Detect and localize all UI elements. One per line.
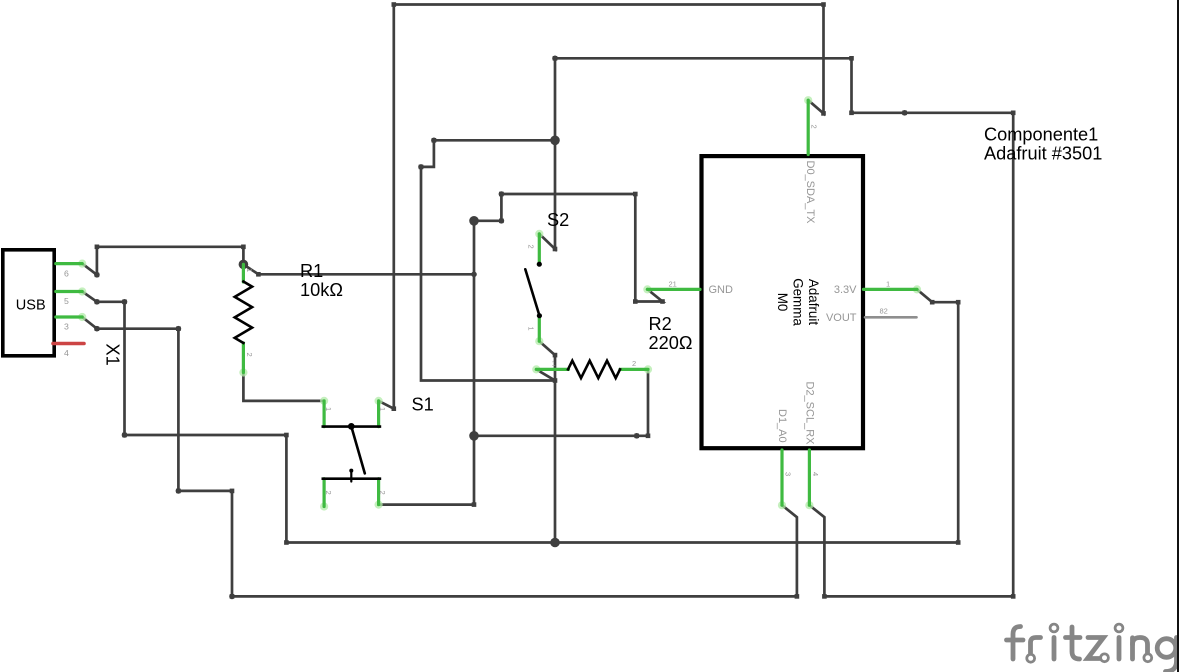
wire S2 pin1 down to bottom bus [539, 341, 555, 542]
svg-text:USB: USB [16, 298, 46, 314]
svg-text:2: 2 [632, 359, 636, 368]
svg-text:10kΩ: 10kΩ [300, 280, 343, 300]
svg-text:R2: R2 [649, 314, 672, 334]
wire GND vertical to Gemma GND pin [474, 194, 663, 302]
USB connector X1 body [3, 250, 54, 356]
svg-text:1: 1 [378, 407, 387, 411]
svg-text:1: 1 [245, 268, 254, 272]
wire USB pin3 to Gemma D1_A0 (lowest bus) [82, 317, 797, 596]
svg-text:4: 4 [811, 472, 820, 476]
screen right edge line [1177, 0, 1179, 672]
USB pin 3 [78, 313, 86, 321]
svg-text:Gemma: Gemma [791, 278, 806, 326]
Gemma pin 3.3V [913, 285, 921, 293]
wire S2 pin2 to Gemma D2_SCL_RX (right route) [539, 58, 1013, 596]
svg-text:Adafruit: Adafruit [806, 279, 821, 325]
switch S2 [535, 230, 543, 238]
fritzing watermark logo [1007, 627, 1177, 672]
svg-text:D1_A0: D1_A0 [776, 409, 788, 443]
wire R2 pin2 to GND vertical [474, 434, 648, 437]
svg-text:D0_SDA_TX: D0_SDA_TX [804, 161, 816, 225]
wire R2 pin1 stub [536, 369, 555, 380]
Gemma pin GND [643, 285, 651, 293]
wire bendpoint markers [95, 273, 100, 278]
Gemma pin D1_A0 [778, 501, 786, 509]
wire R1 pin1 node to GND vertical [243, 264, 474, 274]
svg-text:4: 4 [64, 348, 69, 358]
wire R2 pin2 drop [647, 369, 650, 435]
wire S1 pin1b to Gemma D0_SDA_TX (top route) [379, 5, 824, 409]
switch S1 [320, 397, 328, 405]
svg-text:VOUT: VOUT [826, 312, 857, 324]
svg-text:3.3V: 3.3V [834, 284, 857, 296]
USB pin 4 (red, unconnected) [53, 342, 84, 346]
svg-text:1: 1 [552, 359, 556, 368]
svg-text:2: 2 [324, 491, 333, 495]
svg-text:M0: M0 [775, 293, 790, 312]
svg-text:21: 21 [669, 280, 677, 289]
svg-text:3: 3 [64, 322, 69, 332]
svg-text:2: 2 [810, 125, 819, 129]
svg-text:Componente1: Componente1 [984, 124, 1098, 144]
Gemma pin D0_SDA_TX [804, 96, 812, 104]
junction dots [239, 260, 249, 270]
svg-text:2: 2 [245, 353, 254, 357]
svg-text:220Ω: 220Ω [649, 333, 693, 353]
svg-text:2: 2 [527, 245, 536, 249]
USB pin 6 [78, 260, 86, 268]
wire USB pin6 to R1 pin1 [82, 247, 243, 275]
svg-text:D2_SCL_RX: D2_SCL_RX [803, 382, 815, 446]
svg-text:1: 1 [324, 407, 333, 411]
wire S1 pin2b to GND vertical [379, 503, 474, 506]
svg-text:S1: S1 [412, 395, 434, 415]
USB pin 5 [78, 287, 86, 295]
wire branch from node J2 down left side to R2 pin1 node [421, 140, 555, 380]
svg-text:3: 3 [784, 472, 793, 476]
resistor R1 10k [239, 368, 247, 376]
svg-text:GND: GND [709, 284, 734, 296]
resistor R2 220 [532, 365, 540, 373]
svg-text:S2: S2 [547, 210, 569, 230]
Adafruit Gemma M0 body [702, 156, 864, 448]
wire R1 pin2 to S1 pin1a [243, 373, 324, 401]
wire USB pin5 to Gemma 3.3V (bottom bus) [82, 289, 958, 542]
svg-text:1: 1 [527, 327, 536, 331]
svg-text:6: 6 [64, 269, 69, 279]
svg-text:5: 5 [64, 296, 69, 306]
svg-text:1: 1 [886, 280, 890, 289]
svg-text:R1: R1 [300, 261, 323, 281]
Gemma pin D2_SCL_RX [805, 501, 813, 509]
svg-text:Adafruit #3501: Adafruit #3501 [984, 143, 1102, 163]
wire GND net vertical [473, 221, 476, 505]
Gemma pin VOUT (unconnected) [865, 316, 917, 319]
svg-text:X1: X1 [103, 344, 123, 366]
svg-text:82: 82 [880, 307, 888, 316]
svg-text:2: 2 [378, 491, 387, 495]
